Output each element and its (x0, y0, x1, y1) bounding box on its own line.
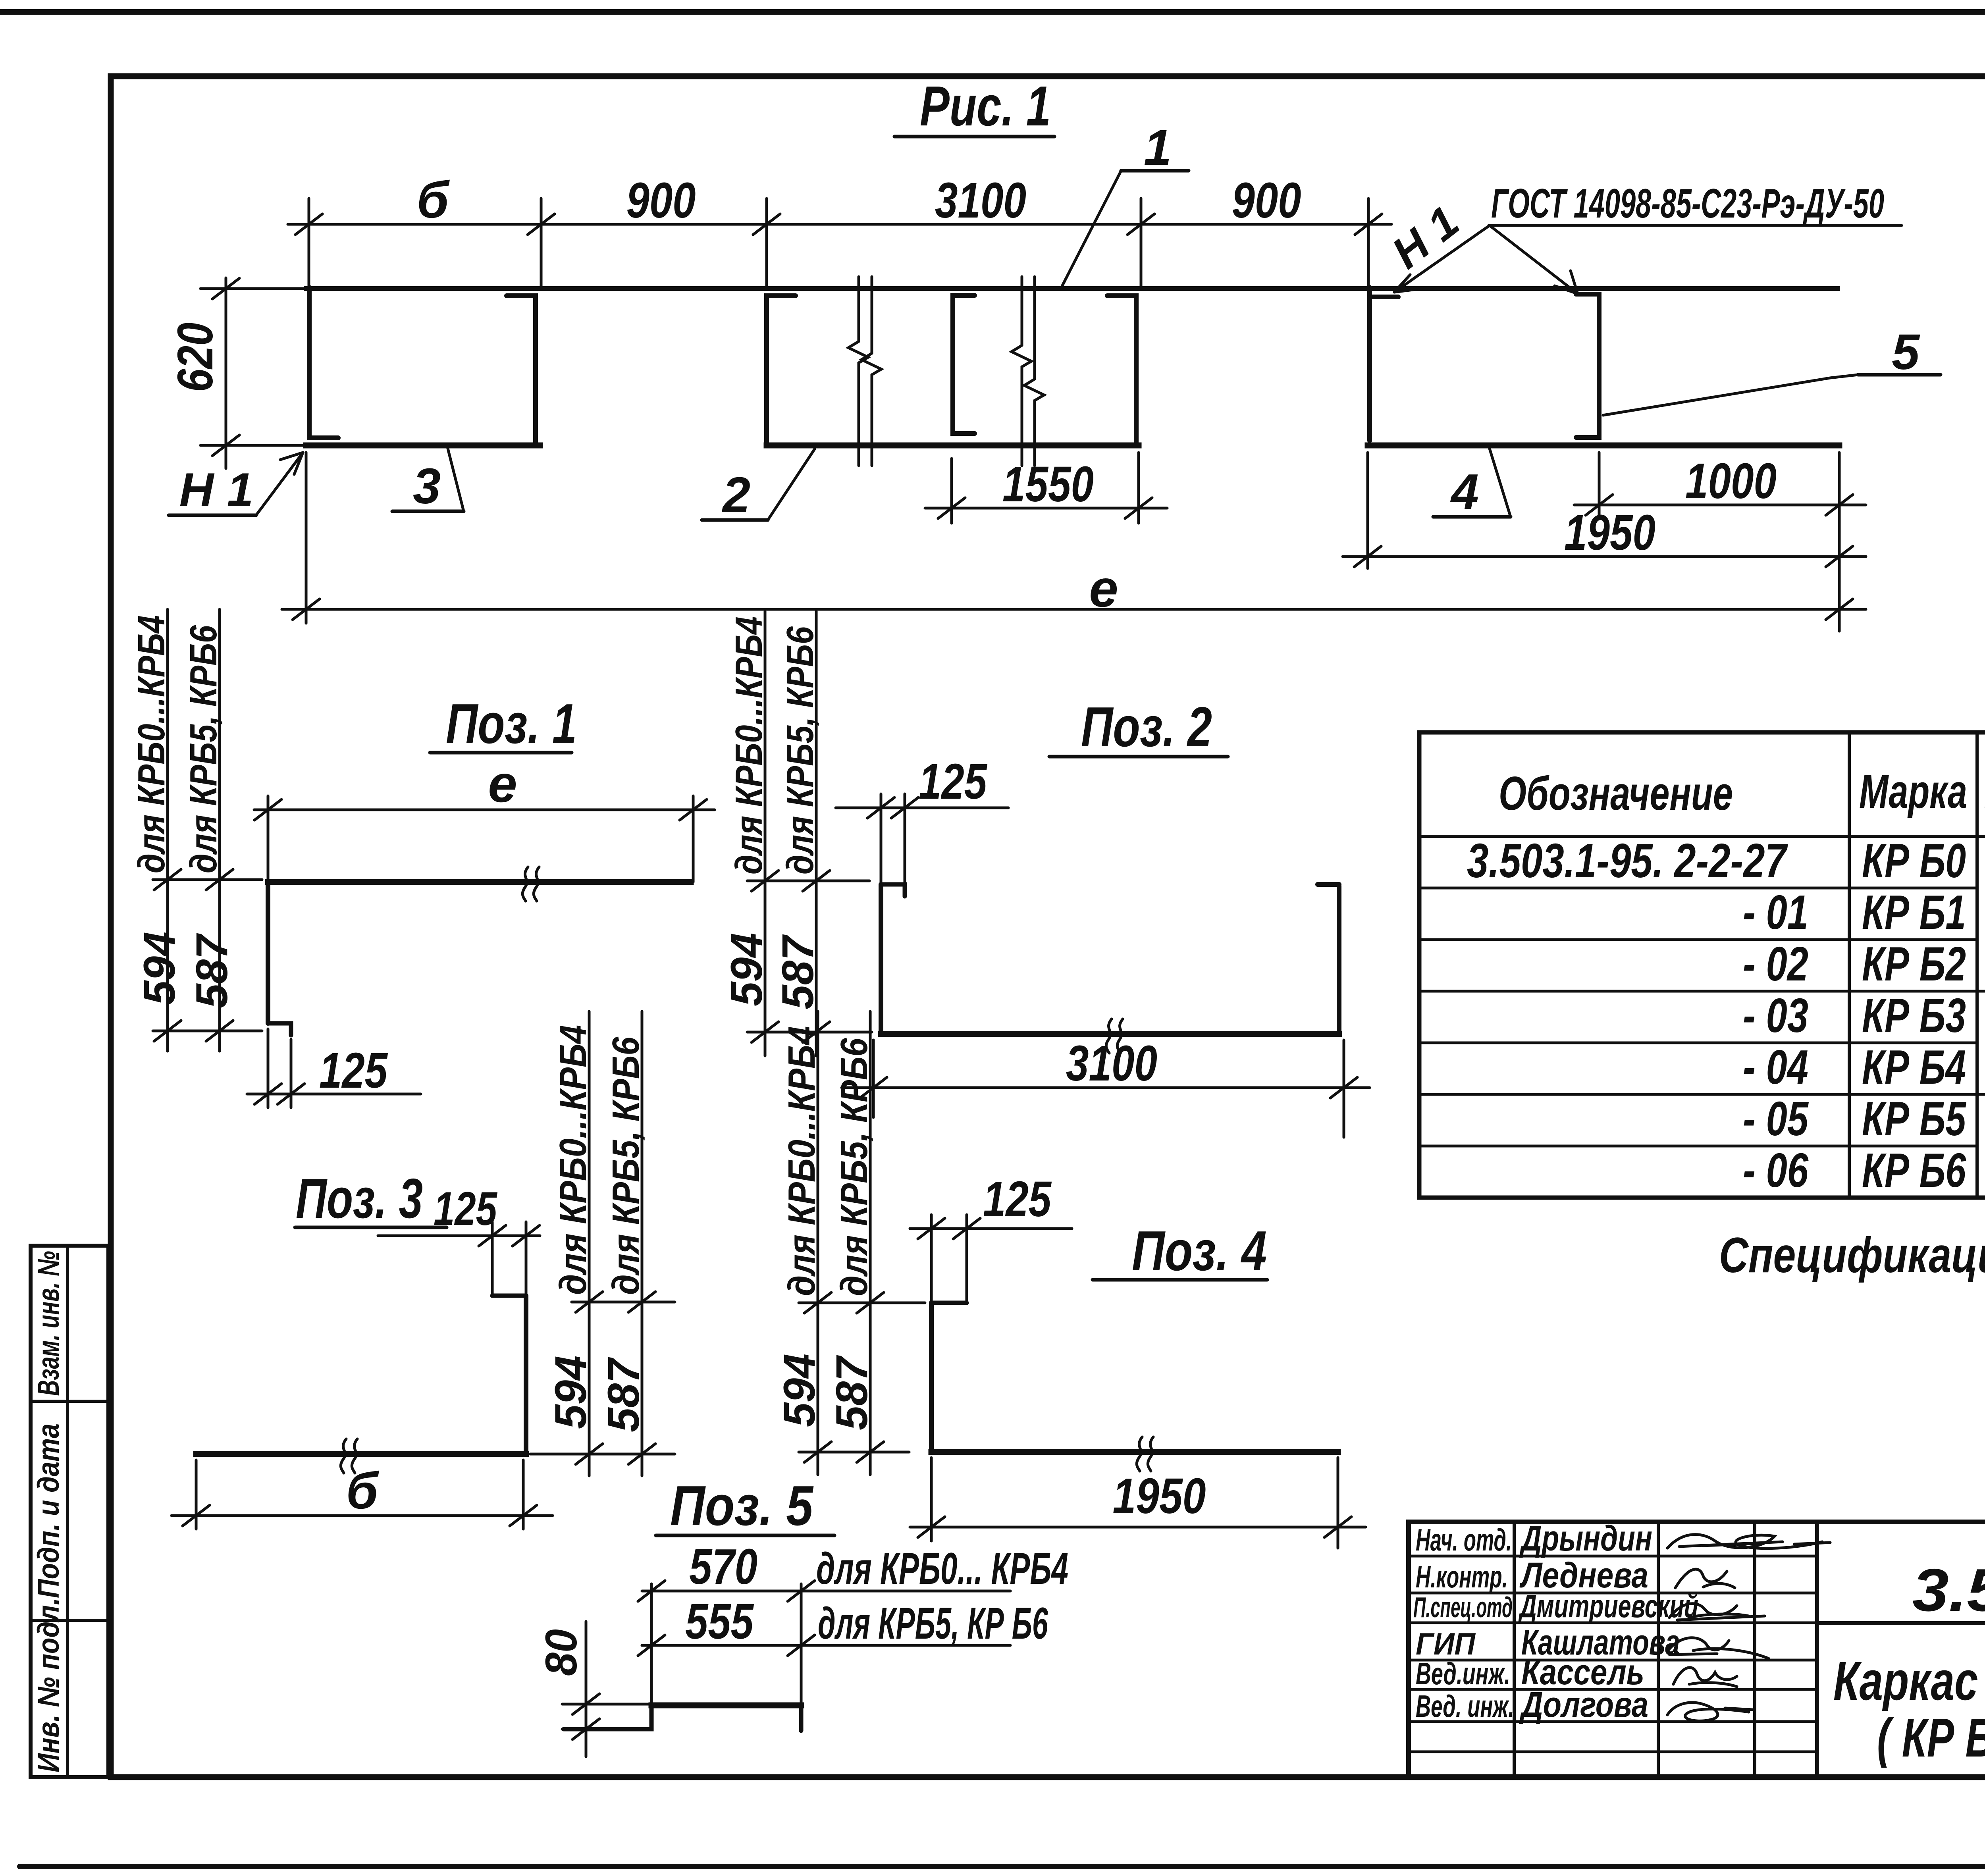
panel B bottom bar (767, 443, 1139, 449)
extension line at 1363 (540, 198, 543, 289)
dim 1550 line (925, 507, 1167, 510)
svg-text:80: 80 (536, 1629, 586, 1676)
1550 ticks (938, 498, 1152, 518)
stamp cell line 2 (31, 1619, 108, 1622)
Poz.3 top foot (492, 1294, 526, 1298)
rail tick row top (747, 880, 869, 882)
svg-text:Поз. 3: Поз. 3 (296, 1167, 423, 1230)
svg-text:( КР Б0... КР Б6): ( КР Б0... КР Б6) (1877, 1707, 1985, 1768)
svg-text:1950: 1950 (1113, 1468, 1206, 1524)
svg-text:5: 5 (1892, 324, 1920, 380)
Poz.5 piece (564, 1705, 651, 1729)
svg-text:3100: 3100 (935, 172, 1026, 228)
svg-text:- 04: - 04 (1743, 1040, 1808, 1094)
svg-text:594: 594 (775, 1354, 824, 1427)
svg-text:б: б (417, 171, 450, 229)
rail tick row bottom (530, 1453, 675, 1456)
svg-text:КР Б3: КР Б3 (1862, 988, 1966, 1042)
GOST arrow right (1490, 225, 1578, 294)
signature table column 3 (1753, 1522, 1756, 1777)
stamp cell line 1 (31, 1400, 108, 1403)
svg-text:Вед.инж.: Вед.инж. (1416, 1656, 1510, 1691)
Poz.2 rail line 2 (815, 611, 818, 1056)
svg-text:для КРБ5, КРБ6: для КРБ5, КРБ6 (833, 1038, 875, 1296)
1950 ticks (1354, 546, 1853, 567)
Poz.1 underline (430, 751, 572, 755)
item 5 leader (1603, 375, 1858, 415)
bar break squiggle (1106, 1019, 1123, 1053)
dim e line (282, 608, 1866, 611)
620 dim line (225, 278, 227, 468)
svg-text:2: 2 (722, 467, 750, 523)
Poz.3 bottom bar (196, 1451, 526, 1457)
Poz.3 rail line 1 (588, 1011, 591, 1476)
1000 extension left (1598, 453, 1601, 518)
svg-text:Подп. и дата: Подп. и дата (32, 1423, 66, 1598)
svg-text:б: б (346, 1462, 380, 1520)
svg-text:Дмитриевский: Дмитриевский (1518, 1588, 1698, 1624)
svg-text:Поз. 5: Поз. 5 (670, 1474, 814, 1537)
dim 555 line with note underline (642, 1644, 1010, 1647)
Poz.3 rail line 2 (641, 1011, 644, 1476)
item 3 leader (448, 449, 464, 511)
svg-text:Марка: Марка (1859, 765, 1967, 818)
stamp column divider vertical (66, 1246, 69, 1777)
svg-text:для КРБ0...КРБ4: для КРБ0...КРБ4 (130, 615, 173, 873)
svg-text:587: 587 (187, 933, 237, 1008)
svg-text:1550: 1550 (1002, 456, 1094, 512)
panel C bottom bar (1368, 443, 1839, 449)
table outer border (1419, 732, 1985, 1198)
dim 125 line (910, 1227, 1072, 1230)
svg-text:587: 587 (827, 1355, 877, 1430)
125 extensions (930, 1215, 933, 1303)
svg-text:594: 594 (722, 933, 771, 1006)
80 ticks (572, 1694, 599, 1739)
555 ticks (638, 1635, 815, 1656)
svg-text:КР Б4: КР Б4 (1862, 1040, 1966, 1094)
tick marks top dim (295, 214, 1382, 235)
item 5 underline (1858, 373, 1941, 377)
svg-text:Инв. № подл.: Инв. № подл. (32, 1598, 66, 1772)
Poz.4 underline (1093, 1278, 1267, 1282)
N1 leader arrow (256, 453, 303, 515)
svg-text:594: 594 (546, 1356, 595, 1429)
svg-text:587: 587 (599, 1357, 648, 1432)
Poz.4 rail line 1 (817, 1011, 819, 1475)
e ticks (254, 799, 707, 820)
signature table column 2 (1657, 1522, 1660, 1777)
item 1 underline (1121, 169, 1189, 173)
GOST arrow left (1394, 225, 1490, 292)
svg-text:для КРБ0...КРБ4: для КРБ0...КРБ4 (728, 616, 770, 874)
item 4 underline (1433, 515, 1511, 519)
svg-text:для КРБ0... КРБ4: для КРБ0... КРБ4 (816, 1544, 1068, 1593)
svg-text:Каркас плоский КР: Каркас плоский КР (1833, 1651, 1985, 1712)
dim 125 line (378, 1235, 540, 1237)
item 2 leader (768, 449, 815, 520)
Poz.1 left vertical (266, 882, 270, 1023)
svg-text:3.503.1-95.2-2-27: 3.503.1-95.2-2-27 (1912, 1556, 1985, 1624)
svg-text:125: 125 (919, 753, 988, 809)
svg-text:125: 125 (319, 1042, 388, 1098)
extension line at 2874 (1140, 198, 1143, 289)
svg-text:для КРБ5, КРБ6: для КРБ5, КРБ6 (779, 626, 821, 874)
rail tick row bottom (747, 1031, 872, 1034)
svg-text:Взам. инв. №: Взам. инв. № (32, 1251, 66, 1396)
svg-text:- 06: - 06 (1743, 1143, 1809, 1197)
Poz.1 rail line 1 (166, 609, 169, 1051)
svg-text:3.503.1-95. 2-2-27: 3.503.1-95. 2-2-27 (1467, 834, 1788, 888)
svg-text:- 05: - 05 (1743, 1092, 1809, 1146)
Poz.1 e dim line (254, 809, 715, 811)
dim 125 line (247, 1093, 421, 1096)
Poz.2 right vertical with top hook (1318, 884, 1339, 1034)
125 ticks (254, 1084, 304, 1104)
svg-text:Спецификацию см. лист 2: Спецификацию см. лист 2 (1719, 1228, 1985, 1283)
svg-text:594: 594 (135, 932, 184, 1005)
svg-text:Поз. 2: Поз. 2 (1081, 695, 1212, 759)
svg-text:е: е (1089, 559, 1118, 618)
Poz.5 underline (656, 1534, 834, 1537)
125 ticks (867, 797, 918, 818)
dim 1950 line (910, 1526, 1366, 1529)
extension line at 778 (308, 198, 310, 289)
column line Marka/Ris (1975, 732, 1979, 1198)
svg-text:Дрындин: Дрындин (1519, 1519, 1652, 1558)
svg-text:1000: 1000 (1685, 453, 1777, 509)
rail tick row top (572, 1301, 675, 1304)
1950 extension right (1838, 453, 1841, 631)
bar break squiggle (341, 1439, 357, 1473)
e ticks (293, 599, 1853, 620)
svg-text:Н 1: Н 1 (179, 463, 254, 516)
Poz.2 rail line 1 (764, 611, 767, 1056)
1000 ticks (1586, 495, 1853, 515)
dim 570 line with note underline (642, 1590, 1010, 1593)
125 extensions (880, 794, 883, 882)
signature squiggle 4 (1667, 1638, 1769, 1658)
bar break squiggle (1137, 1437, 1153, 1471)
Poz.1 top bar (268, 879, 691, 885)
3100 extensions (872, 1040, 875, 1117)
rail tick row top (799, 1302, 925, 1304)
svg-text:570: 570 (689, 1539, 757, 1595)
Poz.4 left vertical (929, 1303, 934, 1452)
svg-text:587: 587 (773, 934, 823, 1009)
title block outer border (1409, 1522, 1985, 1777)
svg-text:3: 3 (413, 458, 441, 514)
svg-text:для КРБ5, КР Б6: для КРБ5, КР Б6 (818, 1599, 1048, 1648)
extension line at 1931 (765, 198, 768, 289)
row line 4 (1419, 1042, 1985, 1044)
panel A right vertical with top hook (507, 296, 536, 445)
1950 extension left (1366, 453, 1369, 568)
svg-text:Вед. инж.: Вед. инж. (1416, 1689, 1514, 1724)
Poz.2 bottom bar (881, 1031, 1339, 1037)
break line pair 1 left (848, 277, 868, 466)
svg-text:900: 900 (626, 172, 696, 228)
scan top edge (0, 9, 1985, 15)
panel C left vertical with top hook (1370, 287, 1398, 441)
125 ticks (918, 1218, 980, 1239)
svg-text:1: 1 (1144, 119, 1172, 175)
Poz.2 underline (1049, 755, 1228, 759)
signature table column 1 (1513, 1522, 1516, 1777)
Poz.4 rail line 2 (869, 1011, 872, 1475)
svg-text:- 01: - 01 (1743, 885, 1808, 939)
620 extension top (200, 287, 306, 290)
svg-text:е: е (488, 755, 517, 813)
svg-text:- 03: - 03 (1743, 988, 1808, 1042)
620 extension bottom (200, 444, 306, 447)
middle channel bracket panel B (953, 295, 975, 433)
1550 extensions (950, 458, 953, 523)
svg-text:ГОСТ 14098-85-С23-Рэ-ДУ-50: ГОСТ 14098-85-С23-Рэ-ДУ-50 (1491, 181, 1884, 227)
row line 6 (1419, 1145, 1985, 1148)
left stamp column box (31, 1246, 108, 1777)
panel A bottom bar (306, 443, 540, 449)
125 extensions (267, 1029, 270, 1107)
break line pair 1 right (861, 277, 881, 466)
signature squiggle 2 (1675, 1569, 1735, 1588)
item 3 underline (392, 510, 464, 513)
svg-text:КР Б6: КР Б6 (1862, 1143, 1966, 1197)
svg-text:4: 4 (1450, 464, 1479, 520)
dim 125 line (836, 807, 1008, 809)
Poz.3 right vertical (524, 1296, 528, 1454)
3100 ticks (860, 1077, 1357, 1098)
column line Oboznachenie/Marka (1848, 732, 1851, 1198)
svg-text:620: 620 (167, 323, 223, 392)
row line 3 (1419, 990, 1985, 993)
header bottom line (1419, 835, 1985, 838)
Ris.1 title underline (894, 135, 1054, 139)
1950 ticks (918, 1517, 1351, 1537)
svg-text:для КРБ5, КРБ6: для КРБ5, КРБ6 (605, 1036, 647, 1295)
item 1 leader (1061, 171, 1121, 289)
e extension left (305, 453, 308, 623)
dim 1950 line (1343, 555, 1866, 558)
svg-text:Нач. отд.: Нач. отд. (1416, 1522, 1512, 1557)
top chord bar item 1 (306, 286, 1837, 291)
svg-text:Н.контр.: Н.контр. (1416, 1559, 1508, 1594)
Poz.4 bottom bar (931, 1449, 1338, 1455)
svg-text:125: 125 (434, 1182, 498, 1235)
Poz.4 top foot (931, 1301, 967, 1305)
signature table right edge (1815, 1522, 1819, 1777)
svg-text:125: 125 (983, 1171, 1052, 1227)
Poz.3 underline (295, 1226, 447, 1229)
dim 80 line (585, 1622, 588, 1757)
svg-text:Обозначение: Обозначение (1499, 767, 1733, 820)
svg-text:для КРБ5, КРБ6: для КРБ5, КРБ6 (182, 625, 225, 873)
row line 2 (1419, 938, 1985, 941)
item 2 underline (702, 518, 768, 522)
break line pair 2 left (1012, 277, 1031, 466)
svg-text:Рис. 1: Рис. 1 (920, 75, 1051, 138)
1950 extensions (930, 1458, 933, 1541)
dim 1000 line (1574, 504, 1866, 507)
svg-text:1950: 1950 (1564, 505, 1655, 560)
Poz.1 rail line 2 (218, 609, 221, 1051)
125 extensions (491, 1222, 494, 1296)
rail tick row bottom (153, 1030, 262, 1032)
80 extension rows (562, 1703, 651, 1706)
scan bottom edge (20, 1864, 1985, 1869)
panel B left vertical with top hook (767, 296, 796, 445)
row line 1 (1419, 887, 1985, 890)
570 ticks (638, 1581, 815, 1601)
piece vertical extensions (650, 1584, 653, 1705)
Poz.2 top foot with drop (881, 884, 905, 896)
svg-text:для КРБ0...КРБ4: для КРБ0...КРБ4 (781, 1026, 823, 1296)
signature squiggle 1 (1667, 1535, 1830, 1549)
b extensions (195, 1460, 198, 1529)
rail tick row bottom (799, 1451, 909, 1454)
svg-text:3100: 3100 (1066, 1035, 1157, 1091)
svg-text:для КРБ0...КРБ4: для КРБ0...КРБ4 (552, 1025, 594, 1295)
N1 underline (169, 514, 256, 517)
signature squiggle 6 (1667, 1703, 1753, 1721)
big designation cell line (1817, 1621, 1985, 1625)
svg-text:КР Б5: КР Б5 (1862, 1092, 1967, 1146)
rail tick row top (153, 878, 262, 881)
620 ticks (212, 278, 239, 456)
signature squiggle 5 (1673, 1668, 1737, 1687)
125 ticks (479, 1225, 540, 1246)
panel A left vertical with bottom hook (309, 287, 338, 438)
svg-text:КР Б1: КР Б1 (1862, 885, 1966, 939)
row line 5 (1419, 1093, 1985, 1096)
panel B right vertical with top hook (1107, 296, 1136, 445)
bar break squiggle (522, 867, 539, 901)
Poz.1 bottom foot (268, 1023, 291, 1035)
svg-text:Долгова: Долгова (1519, 1685, 1648, 1725)
svg-text:Поз. 4: Поз. 4 (1132, 1219, 1267, 1283)
svg-text:- 02: - 02 (1743, 937, 1808, 991)
e extensions (267, 796, 270, 880)
svg-text:КР Б0: КР Б0 (1862, 834, 1966, 888)
Poz.2 left vertical (879, 884, 883, 1034)
item 4 leader (1490, 449, 1511, 517)
panel C channel bracket item 5 (1576, 294, 1599, 437)
b ticks (183, 1505, 537, 1526)
Ris.1 top dimension line (288, 223, 1391, 226)
break line pair 2 right (1024, 277, 1044, 466)
signature row lines (1409, 1556, 1817, 1752)
GOST underline (1489, 224, 1902, 227)
svg-text:900: 900 (1232, 172, 1301, 228)
svg-text:555: 555 (685, 1593, 754, 1649)
svg-text:П.спец.отд: П.спец.отд (1413, 1592, 1513, 1624)
svg-text:КР Б2: КР Б2 (1862, 937, 1966, 991)
signature squiggle 3 (1669, 1604, 1765, 1620)
dim 3100 line (842, 1086, 1370, 1089)
svg-text:Поз. 1: Поз. 1 (446, 692, 577, 755)
extension line at 3447 (1367, 198, 1370, 289)
dim b line (172, 1514, 553, 1517)
